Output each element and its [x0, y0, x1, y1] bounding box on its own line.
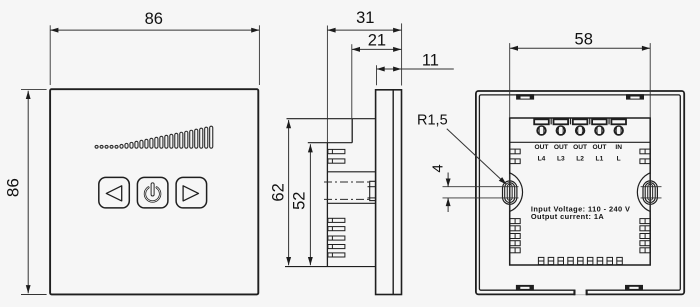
dimension 86 front height: extension lines	[21, 89, 47, 91]
radius callout leader line	[447, 129, 504, 182]
front view: dimmer level scale	[95, 126, 213, 148]
side view lower fin 3	[328, 236, 345, 240]
svg-text:OUT: OUT	[573, 144, 587, 151]
dimension 31: extension lines	[326, 26, 328, 143]
vent slot bottom 9	[617, 257, 623, 264]
vent slot left lower 1	[510, 219, 520, 224]
vent slot right lower 3	[640, 234, 650, 239]
side view: glass layer line	[392, 90, 394, 295]
vent slot right upper 2	[640, 159, 650, 164]
terminal slot separators	[550, 118, 552, 124]
front view: power button	[137, 177, 168, 208]
svg-text:62: 62	[269, 183, 287, 201]
vent slot left upper 1	[510, 149, 520, 154]
back view: top-left mounting clip	[516, 94, 534, 99]
svg-text:58: 58	[575, 31, 593, 49]
vent slot right lower 2	[640, 226, 650, 231]
svg-text:L3: L3	[557, 156, 565, 163]
svg-text:R1,5: R1,5	[417, 112, 448, 128]
terminal wire slot OUT L1	[592, 119, 607, 124]
svg-text:Output current: 1A: Output current: 1A	[531, 212, 604, 221]
dimension 4: extension lines	[443, 186, 519, 188]
back view: bottom-left mounting clip	[516, 285, 534, 290]
back view: bottom cover notch	[575, 289, 585, 296]
svg-text:31: 31	[356, 9, 374, 27]
right mounting hole rings	[643, 181, 657, 204]
terminal wire slot OUT L2	[573, 119, 588, 124]
terminal screw OUT L4	[537, 127, 545, 135]
terminal screw OUT L1	[595, 127, 603, 135]
side view upper fin 1	[328, 149, 345, 153]
vent slot right upper 1	[640, 149, 650, 154]
svg-text:L1: L1	[596, 156, 604, 163]
side view: body bottom edge with extension	[285, 266, 376, 268]
terminal screw OUT L3	[557, 127, 565, 135]
side view upper fin 2	[328, 159, 345, 163]
left mounting hole rings	[503, 181, 517, 204]
side view: body top edge with extension	[287, 118, 376, 120]
front view: dim-up button	[176, 177, 207, 208]
back view: terminal strip divider	[510, 141, 651, 143]
terminal screw IN L	[615, 127, 623, 135]
side view: front panel profile	[376, 90, 402, 295]
terminal wire slot IN L	[611, 119, 626, 124]
terminal wire slot OUT L4	[534, 119, 549, 124]
dimension 11: extension line	[376, 65, 378, 85]
vent slot right lower 1	[640, 219, 650, 224]
svg-text:L4: L4	[538, 156, 546, 163]
vent slot left lower 4	[510, 241, 520, 246]
dimension 58: dimension line and label	[510, 47, 650, 49]
side view: body upper-left edge	[351, 119, 353, 143]
terminal wire slot OUT L3	[554, 119, 569, 124]
dimension 31: dimension line and label	[327, 29, 401, 31]
right mounting hole boss arc	[637, 173, 650, 212]
side view lower fin 1	[328, 218, 345, 222]
vent slot bottom 5	[578, 257, 584, 264]
vent slot left lower 2	[510, 226, 520, 231]
left mounting hole boss arc	[510, 173, 523, 212]
vent slot right lower 4	[640, 241, 650, 246]
terminal screw OUT L2	[576, 127, 584, 135]
vent slot bottom 7	[597, 257, 603, 264]
dimension 52: dimension line and label	[309, 144, 311, 265]
vent slot bottom 1	[538, 257, 544, 264]
vent slot left upper 2	[510, 159, 520, 164]
vent slot left lower 3	[510, 234, 520, 239]
back view: inner frame outline	[479, 95, 680, 290]
svg-text:52: 52	[291, 192, 309, 210]
dimension 21: dimension line and label	[352, 48, 402, 50]
svg-text:11: 11	[422, 51, 439, 69]
dimension 86 front height: dimension line and label	[27, 91, 29, 293]
side view: body step edge with extension	[308, 142, 352, 144]
vent slot bottom 4	[568, 257, 574, 264]
dimension 11: dimension line and label	[377, 68, 454, 70]
svg-text:86: 86	[145, 10, 163, 28]
vent slot right lower 5	[640, 248, 650, 253]
svg-text:L2: L2	[576, 156, 584, 163]
back view: module box	[510, 118, 651, 265]
svg-text:L: L	[617, 156, 621, 163]
back view: outer cover outline	[476, 91, 684, 294]
dimension 86 front width: dimension line and label	[50, 29, 259, 31]
svg-text:4: 4	[430, 164, 447, 172]
side view lower fin 5	[328, 253, 345, 257]
vent slot bottom 2	[548, 257, 554, 264]
vent slot left lower 5	[510, 248, 520, 253]
right mounting hole crosshair	[649, 174, 651, 211]
svg-text:OUT: OUT	[592, 144, 606, 151]
dimension 4: dimension line arrows and label	[447, 173, 449, 187]
svg-text:OUT: OUT	[535, 144, 549, 151]
side view: body left edge	[326, 143, 328, 267]
dimension 86 front width: extension lines	[49, 25, 51, 85]
svg-text:86: 86	[3, 178, 22, 197]
side view: center lines (dash-dot)	[324, 181, 372, 183]
svg-text:21: 21	[368, 32, 386, 50]
left mounting hole crosshair	[509, 174, 511, 211]
front view: glass faceplate outline	[50, 89, 258, 294]
vent slot bottom 6	[587, 257, 593, 264]
side view lower fin 2	[328, 227, 345, 231]
dimension 21: extension line	[351, 44, 353, 118]
vent slot bottom 8	[607, 257, 613, 264]
vent slot bottom 3	[558, 257, 564, 264]
back view: top-right mounting clip	[626, 94, 644, 99]
side view: center section edges	[327, 171, 375, 173]
side view lower fin 4	[328, 245, 345, 249]
dimension 58: extension/center lines	[509, 43, 511, 118]
dimension 62: dimension line and label	[288, 120, 290, 265]
back view: bottom-right mounting clip	[625, 285, 643, 290]
side view: mounting boss	[370, 181, 376, 200]
front view: dim-down button	[99, 177, 130, 208]
svg-text:OUT: OUT	[554, 144, 568, 151]
svg-text:IN: IN	[615, 144, 622, 151]
